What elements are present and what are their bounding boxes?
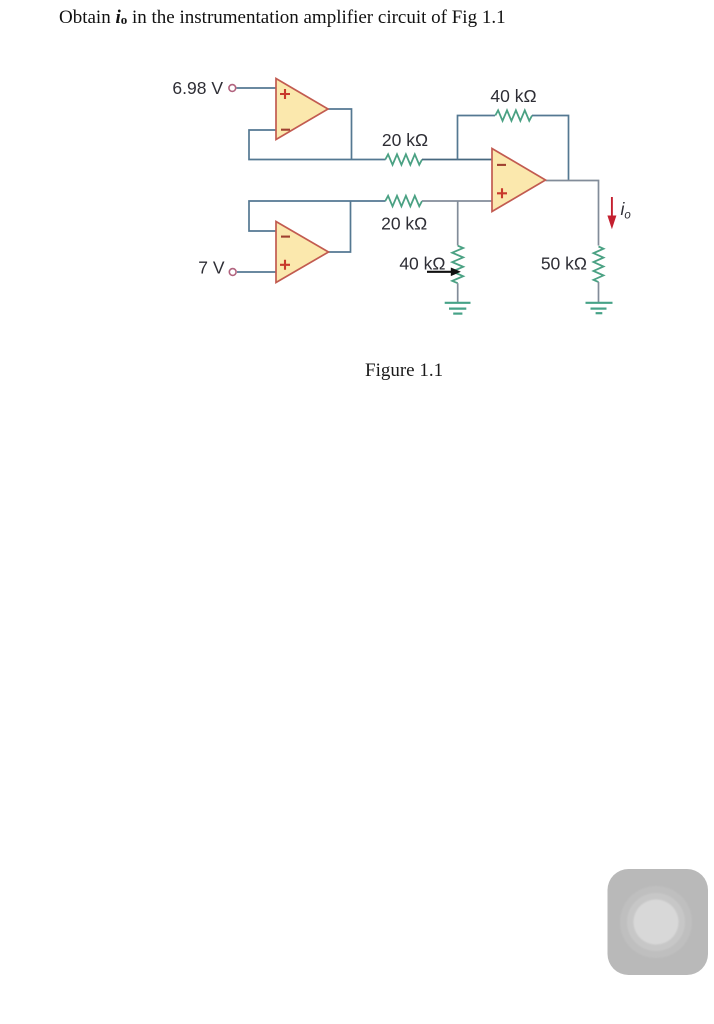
resistor R5 50 kOhm vertical (594, 247, 604, 283)
op-amp U3 (492, 149, 546, 212)
wire: feedback node up to 40k feedback resistor (458, 116, 496, 160)
terminal 7 V (229, 269, 236, 276)
current arrow i_o (red) (607, 197, 616, 229)
watermark logo (grey rounded square with circles) (608, 869, 709, 975)
wire: node down to 40k grounding resistor (457, 201, 459, 246)
wire: R1 to U3 inverting input (422, 159, 492, 161)
svg-text:40 kΩ: 40 kΩ (490, 86, 536, 106)
resistor R3 40 kOhm feedback (495, 110, 532, 121)
wire: U2 feedback loop from inverting input (249, 201, 386, 231)
svg-text:50 kΩ: 50 kΩ (541, 254, 587, 274)
terminal 6.98 V (229, 85, 236, 92)
wire: U1 feedback loop from inverting input (249, 130, 386, 160)
ground (right) (586, 303, 613, 313)
wire: U1 output right then down to feedback node (328, 109, 352, 160)
title text (59, 7, 506, 29)
wire: 6.98V source lead to U1 + input (237, 87, 277, 89)
wire: U2 output right then up to feedback node (328, 201, 351, 252)
ground (left) (445, 303, 471, 314)
resistor R4 40 kOhm vertical (452, 246, 463, 284)
svg-text:7 V: 7 V (198, 258, 225, 278)
pointer arrow (black) at 40 kOhm (427, 268, 461, 277)
wire: U3 output to output node and down to 50k (546, 181, 599, 246)
wire: R5 to ground (598, 282, 600, 302)
op-amp U1 (276, 79, 328, 140)
svg-text:20 kΩ: 20 kΩ (382, 130, 428, 150)
wire: R4 to ground (457, 283, 459, 302)
resistor R1 20 kOhm horizontal (385, 154, 422, 165)
svg-text:6.98 V: 6.98 V (172, 78, 223, 98)
resistor R2 20 kOhm horizontal (385, 196, 422, 207)
svg-text:40 kΩ: 40 kΩ (399, 254, 445, 274)
svg-text:20 kΩ: 20 kΩ (381, 214, 427, 234)
wire: R2 to U3 non-inverting input (422, 200, 492, 202)
wire: 7V source lead to U2 + input (237, 271, 276, 273)
svg-text:io: io (621, 199, 632, 222)
op-amp U2 (276, 222, 329, 283)
wire: 40k feedback to U3 output node (532, 116, 569, 181)
figure caption (365, 360, 443, 382)
